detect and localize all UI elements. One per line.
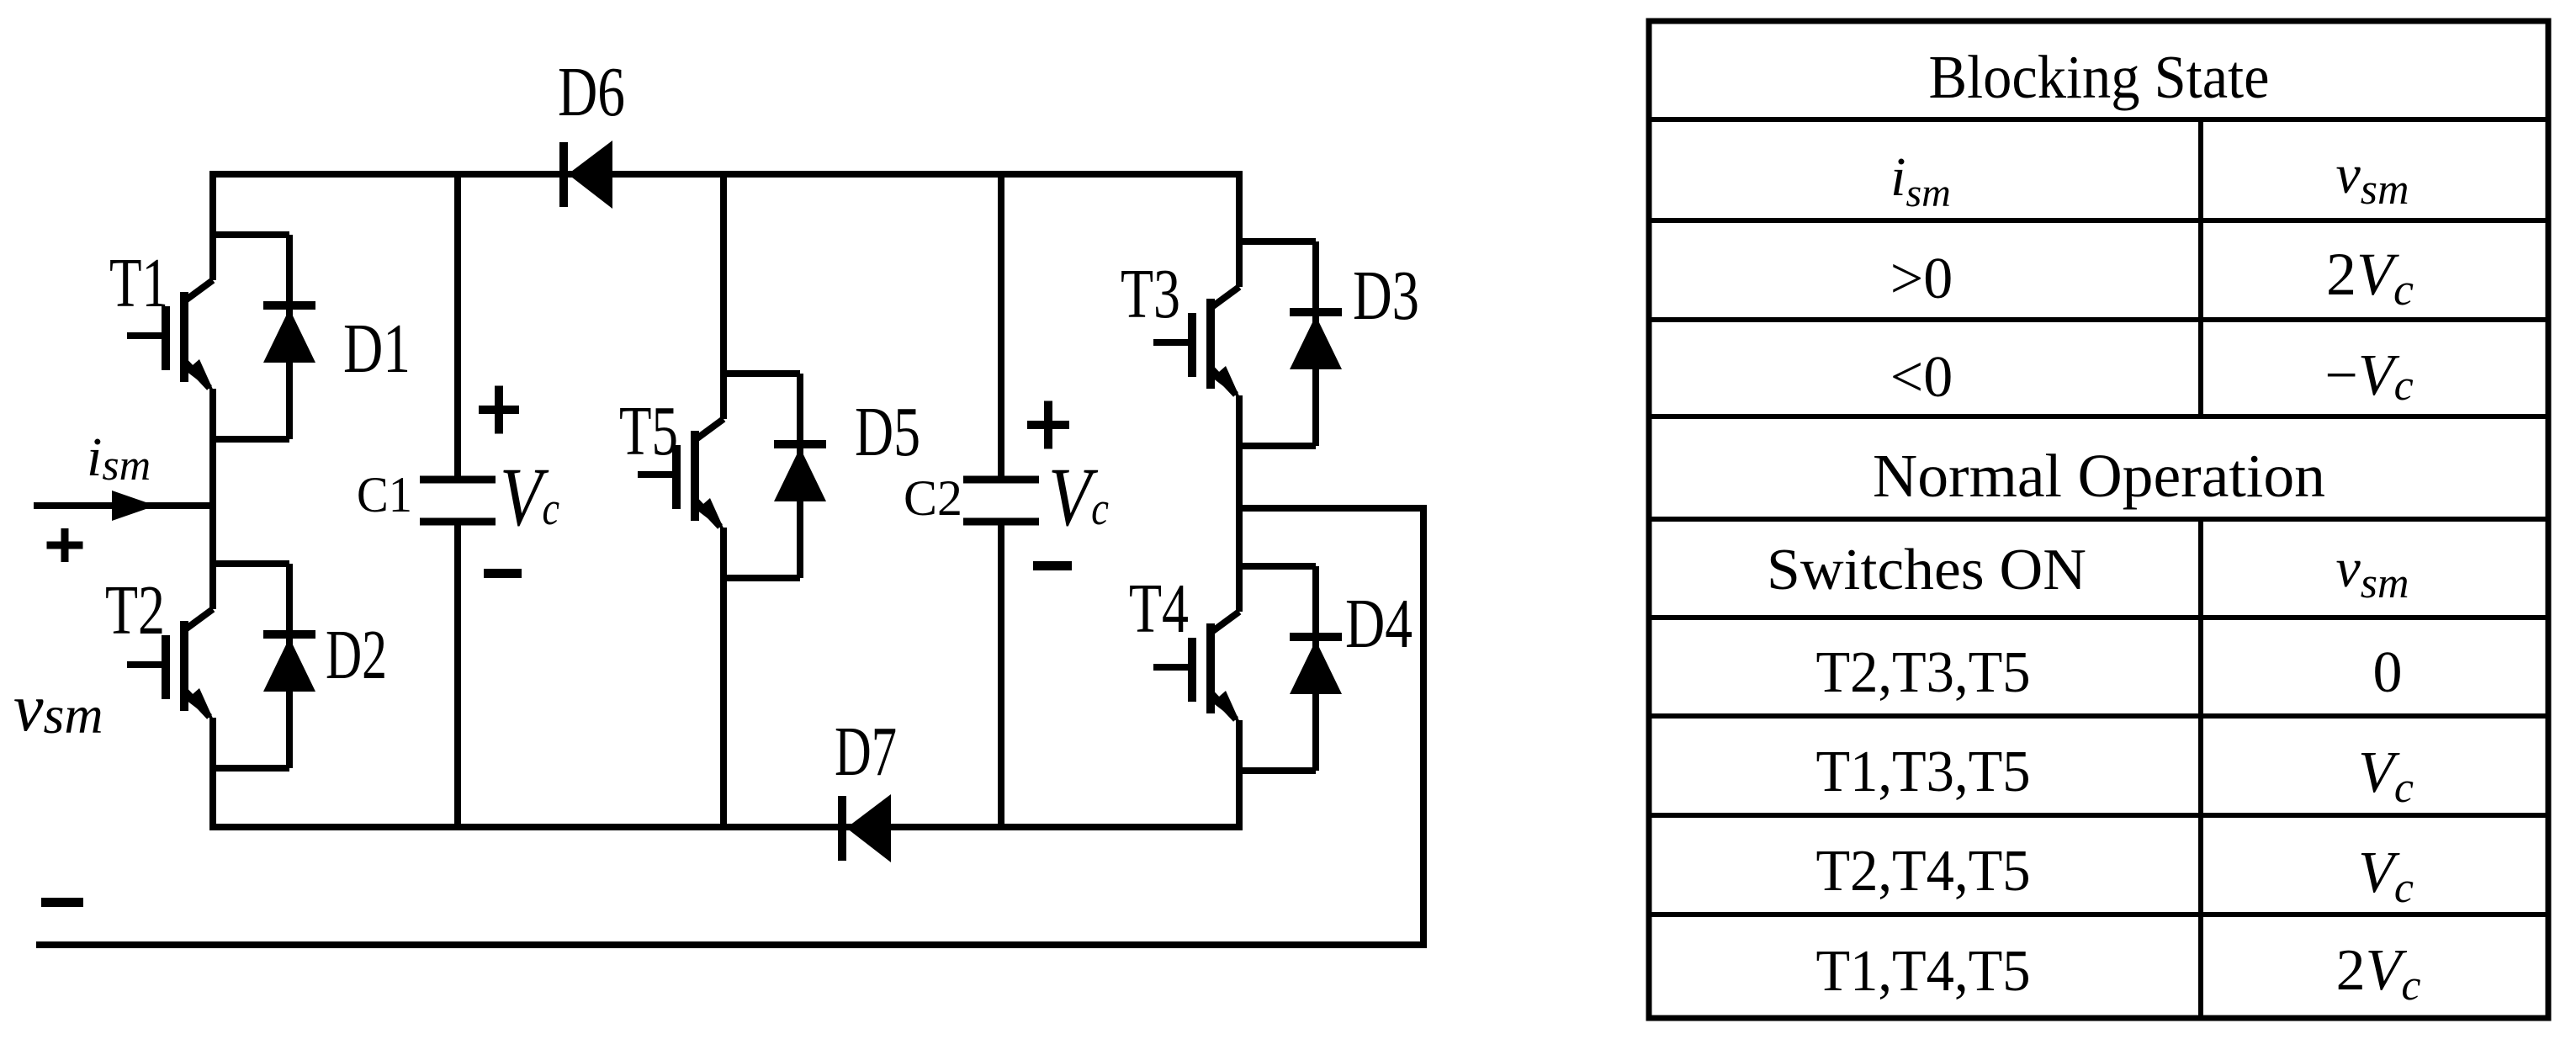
label - input bbox=[41, 898, 83, 907]
svg-text:Normal Operation: Normal Operation bbox=[1873, 442, 2325, 510]
diode D4 bbox=[1290, 637, 1342, 694]
svg-text:D3: D3 bbox=[1353, 257, 1419, 335]
diode D3 bbox=[1290, 312, 1342, 369]
label - C2 bbox=[1033, 561, 1072, 570]
wire: C2 top lead bbox=[998, 174, 1004, 476]
diode D6 bbox=[564, 141, 612, 209]
svg-text:D7: D7 bbox=[835, 713, 897, 791]
svg-text:D6: D6 bbox=[558, 53, 625, 131]
svg-text:T1: T1 bbox=[109, 244, 168, 322]
svg-text:T4: T4 bbox=[1129, 570, 1189, 648]
wire: input i_sm bbox=[34, 502, 213, 509]
svg-text:D4: D4 bbox=[1345, 585, 1413, 663]
wire: T5 rail upper bbox=[720, 171, 727, 419]
svg-text:D2: D2 bbox=[326, 616, 387, 694]
input arrowhead bbox=[112, 491, 156, 521]
svg-text:Switches ON: Switches ON bbox=[1767, 538, 2086, 602]
svg-text:Blocking State: Blocking State bbox=[1929, 43, 2270, 111]
diode D7 bbox=[842, 794, 891, 862]
wire: left rail middle bbox=[209, 389, 216, 609]
svg-text:<0: <0 bbox=[1890, 345, 1953, 410]
wire: top rail bbox=[213, 171, 1239, 178]
svg-text:T1,T4,T5: T1,T4,T5 bbox=[1816, 939, 2031, 1004]
wire: output to right bbox=[1239, 505, 1423, 512]
svg-text:0: 0 bbox=[2373, 640, 2403, 705]
transistor T1 bbox=[127, 235, 289, 439]
svg-text:T2,T4,T5: T2,T4,T5 bbox=[1816, 839, 2031, 904]
wire: right rail upper bbox=[1236, 171, 1243, 287]
svg-text:T5: T5 bbox=[619, 392, 678, 470]
svg-text:>0: >0 bbox=[1890, 247, 1953, 311]
svg-text:D1: D1 bbox=[343, 310, 411, 388]
table text bbox=[1767, 43, 2420, 1010]
svg-text:T1,T3,T5: T1,T3,T5 bbox=[1816, 740, 2031, 804]
wire: left rail lower bbox=[209, 718, 216, 830]
svg-text:C1: C1 bbox=[357, 467, 412, 522]
capacitor C1 bbox=[420, 480, 496, 522]
transistor T2 bbox=[127, 564, 289, 768]
diode D5 bbox=[774, 444, 826, 501]
svg-text:T2,T3,T5: T2,T3,T5 bbox=[1816, 640, 2031, 705]
wire: right rail middle bbox=[1236, 395, 1243, 612]
label + input bbox=[47, 528, 83, 562]
wire: left rail upper bbox=[209, 171, 216, 280]
wire: C1 top lead bbox=[454, 174, 461, 476]
capacitor C2 bbox=[963, 480, 1039, 522]
wire: bottom external bbox=[36, 941, 1427, 948]
wire: T5 rail lower bbox=[720, 528, 727, 830]
diode D2 bbox=[263, 634, 315, 692]
diode D1 bbox=[263, 305, 315, 363]
svg-text:C2: C2 bbox=[904, 470, 962, 526]
wire: right rail lower bbox=[1236, 720, 1243, 830]
label + C2 bbox=[1027, 401, 1069, 449]
label + C1 bbox=[479, 386, 519, 434]
table: state table bbox=[1649, 21, 2548, 1018]
label - C1 bbox=[484, 569, 522, 578]
wire: C2 bottom lead bbox=[998, 525, 1004, 827]
wire: C1 bottom lead bbox=[454, 525, 461, 827]
wire: bottom rail bbox=[213, 824, 1239, 830]
svg-text:D5: D5 bbox=[855, 393, 920, 471]
svg-text:T3: T3 bbox=[1121, 255, 1180, 333]
transistor T5 bbox=[638, 374, 800, 578]
transistor T3 bbox=[1153, 241, 1316, 446]
svg-text:T2: T2 bbox=[105, 571, 165, 650]
transistor T4 bbox=[1153, 566, 1316, 771]
wire: right drop bbox=[1420, 505, 1427, 948]
